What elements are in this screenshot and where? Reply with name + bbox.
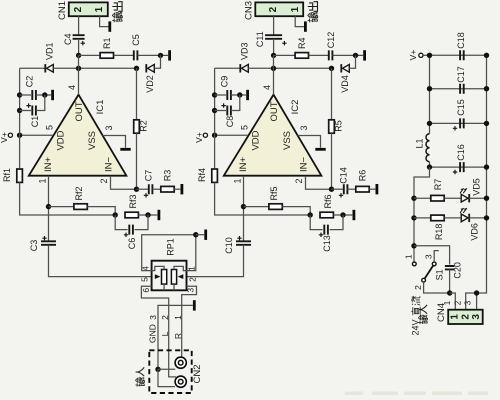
svg-text:R4: R4 bbox=[297, 38, 307, 50]
diode VD4 bbox=[340, 64, 342, 72]
label output (Chinese) bbox=[112, 12, 122, 22]
wire C3 to volume pot wiper left bbox=[49, 245, 152, 277]
svg-text:R5: R5 bbox=[334, 120, 344, 132]
svg-text:IN−: IN− bbox=[299, 157, 310, 173]
wire rail jog down bbox=[414, 167, 430, 264]
junction bbox=[427, 164, 432, 169]
junction bbox=[113, 212, 118, 217]
svg-text:C11: C11 bbox=[255, 31, 265, 47]
wire ground to jack 1 bbox=[158, 368, 175, 370]
resistor Rf4 bbox=[212, 169, 218, 182]
svg-text:C14: C14 bbox=[339, 167, 349, 184]
svg-text:IN−: IN− bbox=[104, 157, 115, 173]
svg-text:R2: R2 bbox=[139, 120, 149, 132]
diode VD3 bbox=[239, 64, 241, 72]
junction bbox=[447, 290, 452, 295]
svg-text:C4: C4 bbox=[63, 33, 73, 45]
svg-text:CN1: CN1 bbox=[57, 1, 68, 20]
svg-text:2: 2 bbox=[413, 285, 423, 290]
wire top to ground bar bbox=[196, 234, 204, 236]
V+ terminal power bbox=[419, 53, 423, 57]
svg-text:Rf4: Rf4 bbox=[197, 168, 207, 182]
svg-text:3: 3 bbox=[424, 254, 434, 259]
wire output to Zobel bbox=[274, 54, 296, 56]
svg-text:R: R bbox=[173, 333, 183, 339]
wire Rf1 to bias rail bbox=[215, 182, 311, 215]
svg-text:1: 1 bbox=[450, 314, 461, 320]
resistor R3 bbox=[152, 188, 161, 190]
svg-text:R6: R6 bbox=[358, 170, 368, 182]
svg-text:C16: C16 bbox=[456, 144, 466, 161]
power rails and rungs bbox=[429, 55, 431, 133]
wire V+ rail corner to VD1 bbox=[215, 67, 241, 69]
ground bar bbox=[51, 90, 54, 100]
capacitor C3 bbox=[41, 241, 56, 245]
LED VD5 bbox=[461, 194, 468, 202]
svg-text:GND: GND bbox=[148, 324, 158, 343]
junction bbox=[76, 66, 81, 71]
wire pin2 IN- bbox=[306, 176, 332, 190]
svg-text:VD6: VD6 bbox=[470, 223, 480, 241]
svg-text:3: 3 bbox=[471, 314, 482, 320]
svg-text:1: 1 bbox=[38, 178, 48, 183]
label input (Chinese) bbox=[135, 377, 144, 386]
capacitor C11 bbox=[265, 35, 282, 39]
filter rung 2 bbox=[430, 88, 487, 90]
svg-text:C3: C3 bbox=[29, 240, 39, 252]
wire L1 to rung 4 bbox=[429, 162, 431, 167]
wire R1 to C5 bbox=[309, 54, 329, 56]
svg-text:C2: C2 bbox=[25, 76, 35, 88]
wire VD6 to right rail bbox=[469, 217, 486, 219]
svg-text:1: 1 bbox=[290, 6, 301, 12]
svg-text:V+: V+ bbox=[0, 132, 9, 143]
filter rung 3 bbox=[430, 122, 487, 124]
junction bbox=[193, 232, 198, 237]
svg-text:3: 3 bbox=[186, 288, 196, 293]
wire VD1 to out node bbox=[248, 67, 331, 69]
svg-text:3: 3 bbox=[464, 300, 473, 305]
wire CN3 pin2 down bbox=[273, 16, 275, 35]
svg-text:VDD: VDD bbox=[56, 130, 67, 150]
junction bbox=[271, 66, 276, 71]
wire VD2 up to ground node bbox=[154, 55, 160, 68]
wire ground to jack 2 bbox=[158, 369, 175, 386]
svg-text:1: 1 bbox=[233, 178, 243, 183]
wire C10 to volume pot wiper right bbox=[187, 245, 244, 277]
ground bar bbox=[363, 50, 366, 60]
svg-text:3: 3 bbox=[104, 125, 114, 130]
svg-text:3: 3 bbox=[299, 125, 309, 130]
wire CN4 pin2 bbox=[466, 293, 477, 310]
V+ rail bbox=[19, 68, 21, 168]
op-amp IC1 bbox=[29, 95, 127, 176]
wire R2 down to IN- node bbox=[136, 133, 138, 189]
svg-text:Rf5: Rf5 bbox=[269, 186, 279, 200]
svg-text:4: 4 bbox=[262, 85, 272, 90]
junction bbox=[212, 108, 217, 113]
resistor Rf1 bbox=[17, 169, 23, 182]
wire VD2 up to ground node bbox=[349, 55, 355, 68]
resistor R18 bbox=[431, 215, 444, 221]
switch S1 terminal 2 bbox=[422, 278, 426, 282]
wire pin5 VDD bbox=[215, 134, 248, 136]
svg-text:VD3: VD3 bbox=[240, 43, 250, 61]
svg-text:5: 5 bbox=[240, 125, 250, 130]
junction bbox=[427, 53, 432, 58]
junction bbox=[411, 196, 416, 201]
svg-text:2: 2 bbox=[294, 178, 304, 183]
wiper arrow right bbox=[178, 274, 184, 279]
junction bbox=[76, 53, 81, 58]
wire CN4 pin3 bbox=[476, 293, 478, 310]
capacitor C8 bbox=[215, 110, 226, 112]
svg-text:OUT: OUT bbox=[74, 101, 85, 121]
svg-text:Rf1: Rf1 bbox=[2, 168, 12, 182]
svg-text:L: L bbox=[160, 331, 170, 336]
svg-text:VD1: VD1 bbox=[45, 43, 55, 61]
capacitor C6 parallel bbox=[115, 215, 127, 230]
wire RP1 pin6 to CN2 L bbox=[141, 286, 176, 377]
capacitor C5 bbox=[134, 50, 138, 60]
svg-text:C1: C1 bbox=[30, 116, 40, 128]
junction bbox=[134, 66, 139, 71]
RCA jack lower bbox=[175, 376, 186, 387]
capacitor C7 bbox=[137, 188, 149, 190]
wire CN1 pin2 down bbox=[78, 16, 80, 35]
svg-text:5: 5 bbox=[45, 125, 55, 130]
wire Rf3 to ground bbox=[333, 214, 352, 216]
junction bbox=[145, 212, 150, 217]
svg-text:4: 4 bbox=[67, 85, 77, 90]
potentiometer RP1 body bbox=[152, 261, 187, 291]
junction bbox=[237, 92, 242, 97]
svg-text:1: 1 bbox=[173, 315, 183, 320]
capacitor C9 bbox=[215, 94, 226, 96]
wire R2 down to IN- node bbox=[331, 133, 333, 189]
svg-text:3: 3 bbox=[148, 315, 158, 320]
svg-text:C18: C18 bbox=[456, 32, 466, 49]
wire V+ to rail bbox=[423, 54, 430, 56]
S1 terminal 3 stub bbox=[434, 251, 439, 262]
ground bar bbox=[108, 21, 111, 31]
svg-text:Rf2: Rf2 bbox=[74, 186, 84, 200]
wire junction to CN4 pin1 bbox=[450, 293, 456, 310]
capacitor C1 bbox=[20, 110, 31, 112]
wire C1 up to C2 node bbox=[36, 95, 45, 111]
wire C5 to ground node bbox=[332, 54, 363, 56]
svg-text:V+: V+ bbox=[408, 50, 418, 61]
svg-text:2: 2 bbox=[453, 300, 462, 305]
pot element left bbox=[162, 270, 167, 285]
wire CN3 pin1 to ground bbox=[295, 16, 304, 26]
ground bar bbox=[375, 184, 378, 194]
junction S1 top bbox=[411, 243, 416, 248]
junction bbox=[17, 133, 22, 138]
ground bar bbox=[157, 210, 160, 220]
resistor Rf6 bbox=[320, 212, 333, 218]
resistor Rf3 bbox=[125, 212, 138, 218]
svg-text:IC2: IC2 bbox=[290, 100, 301, 115]
ground bar bbox=[180, 184, 183, 194]
junction bbox=[484, 196, 489, 201]
svg-text:C8: C8 bbox=[225, 116, 235, 128]
junction bbox=[484, 164, 489, 169]
svg-text:2: 2 bbox=[73, 6, 84, 12]
wire Rf3 to ground bbox=[138, 214, 157, 216]
svg-text:1: 1 bbox=[403, 254, 413, 259]
ground bar bbox=[168, 50, 171, 60]
junction bbox=[329, 187, 334, 192]
V+ terminal bbox=[8, 133, 12, 137]
ground bar bbox=[304, 21, 307, 31]
svg-text:6: 6 bbox=[141, 288, 151, 293]
svg-text:C12: C12 bbox=[326, 32, 336, 49]
wire pin1 IN+ bbox=[243, 176, 245, 242]
LED VD6 bbox=[461, 214, 468, 222]
svg-text:C20: C20 bbox=[452, 262, 462, 279]
junction bbox=[353, 53, 358, 58]
diode VD1 bbox=[44, 64, 46, 72]
svg-text:R1: R1 bbox=[102, 38, 112, 50]
wire R1 to C5 bbox=[114, 54, 134, 56]
op-amp IC2 bbox=[224, 95, 322, 176]
junction bbox=[212, 92, 217, 97]
svg-text:R7: R7 bbox=[433, 179, 443, 191]
connector CN1 bbox=[69, 2, 108, 16]
svg-text:V+: V+ bbox=[194, 132, 204, 143]
junction bbox=[484, 53, 489, 58]
V+ rail bbox=[214, 68, 216, 168]
switch S1 terminal 1 bbox=[412, 262, 416, 266]
svg-text:R3: R3 bbox=[163, 170, 173, 182]
resistor R5 bbox=[331, 68, 333, 120]
wiper arrow left bbox=[155, 274, 161, 279]
resistor Rf5 bbox=[244, 206, 269, 208]
wire RP1 grounded ends loop bbox=[142, 235, 196, 271]
wire S1 to CN4 bbox=[424, 282, 450, 293]
pot element right bbox=[171, 270, 176, 285]
junction bbox=[308, 212, 313, 217]
resistor R4 bbox=[295, 53, 308, 59]
junction bbox=[134, 187, 139, 192]
junction bbox=[340, 212, 345, 217]
svg-text:RP1: RP1 bbox=[166, 238, 176, 256]
svg-text:2: 2 bbox=[188, 277, 198, 282]
wire V+ rail corner to VD1 bbox=[20, 67, 46, 69]
svg-text:VD2: VD2 bbox=[145, 75, 155, 93]
svg-text:VSS: VSS bbox=[87, 131, 98, 150]
wire pin1 IN+ bbox=[48, 176, 50, 242]
filter rung 4 bbox=[430, 166, 487, 168]
diode VD2 bbox=[145, 64, 147, 72]
svg-text:2: 2 bbox=[160, 315, 170, 320]
svg-text:CN3: CN3 bbox=[243, 1, 254, 20]
wire pin2 IN- bbox=[111, 176, 137, 190]
switch S1 lever bbox=[425, 266, 434, 279]
wire pin3 VSS to ground bbox=[103, 136, 126, 148]
svg-text:Rf6: Rf6 bbox=[323, 194, 333, 208]
wire C20 to junction bbox=[449, 269, 451, 293]
wire VD1 to out node bbox=[53, 67, 136, 69]
capacitor C18 bbox=[460, 50, 464, 60]
switch S1 terminal 3 bbox=[432, 262, 436, 266]
svg-text:IN+: IN+ bbox=[238, 157, 249, 173]
junction bbox=[271, 53, 276, 58]
junction bbox=[17, 92, 22, 97]
junction bbox=[427, 121, 432, 126]
junction bbox=[329, 66, 334, 71]
svg-text:C15: C15 bbox=[456, 99, 466, 116]
svg-text:VDD: VDD bbox=[251, 130, 262, 150]
capacitor C15 bbox=[460, 118, 464, 128]
wire Rf1 to bias rail bbox=[20, 182, 116, 215]
wire C5 to ground node bbox=[137, 54, 168, 56]
junction bbox=[46, 204, 51, 209]
svg-text:1: 1 bbox=[94, 6, 105, 12]
junction bbox=[484, 215, 489, 220]
pot element right leads bbox=[174, 266, 187, 270]
CN2 ground wire bbox=[158, 305, 193, 369]
svg-text:Rf3: Rf3 bbox=[128, 194, 138, 208]
wire C4 to output node bbox=[273, 39, 275, 56]
capacitor C13 parallel bbox=[310, 215, 322, 230]
svg-text:C9: C9 bbox=[220, 76, 230, 88]
ground bar bbox=[193, 300, 196, 310]
filter rung 1 bbox=[430, 54, 487, 56]
RCA jack upper bbox=[175, 357, 186, 368]
wire pin4 OUT to rail bbox=[273, 55, 275, 94]
wire C1 up to C2 node bbox=[231, 95, 240, 111]
V+ terminal bbox=[203, 133, 207, 137]
ground bar bbox=[204, 230, 207, 240]
wire CN1 pin1 to ground bbox=[100, 16, 109, 26]
junction bbox=[42, 92, 47, 97]
wire R3 to ground bbox=[369, 188, 375, 190]
svg-text:2: 2 bbox=[460, 314, 471, 320]
junction bbox=[411, 215, 416, 220]
junction bbox=[212, 133, 217, 138]
svg-text:C10: C10 bbox=[224, 237, 234, 254]
resistor R2 bbox=[136, 68, 138, 120]
svg-text:R18: R18 bbox=[434, 224, 444, 241]
connector CN3 bbox=[255, 2, 303, 16]
capacitor C4 bbox=[73, 35, 85, 39]
wire RP1 pin3 to CN2 R bbox=[182, 286, 197, 357]
resistor Rf2 bbox=[49, 206, 74, 208]
svg-text:C17: C17 bbox=[456, 66, 466, 83]
svg-text:CN2: CN2 bbox=[192, 364, 203, 383]
wire Rf2 to bias node bbox=[282, 207, 310, 215]
ground bar bbox=[315, 148, 325, 151]
resistor R6 bbox=[347, 188, 356, 190]
capacitor C16 bbox=[460, 162, 464, 172]
wire Rf2 to bias node bbox=[87, 207, 115, 215]
pot element left leads bbox=[152, 266, 165, 270]
svg-text:IC1: IC1 bbox=[95, 100, 106, 115]
connector CN2 dashed box bbox=[149, 350, 191, 393]
svg-text:C6: C6 bbox=[127, 238, 137, 250]
faint scan artifacts bottom edge bbox=[345, 392, 363, 396]
wire pin4 OUT to rail bbox=[78, 55, 80, 94]
svg-text:2: 2 bbox=[99, 178, 109, 183]
ground bar bbox=[352, 210, 355, 220]
svg-text:24V: 24V bbox=[411, 319, 421, 335]
svg-text:IN+: IN+ bbox=[43, 157, 54, 173]
connector CN4 bbox=[448, 310, 483, 324]
svg-text:C7: C7 bbox=[144, 170, 154, 182]
junction bbox=[474, 290, 479, 295]
wire to C20 bbox=[414, 246, 450, 265]
wire R3 to ground bbox=[174, 188, 180, 190]
junction bbox=[241, 204, 246, 209]
label output (Chinese) bbox=[308, 12, 318, 22]
resistor R7 bbox=[431, 195, 444, 201]
junction bbox=[484, 121, 489, 126]
wire C4 to output node bbox=[78, 39, 80, 56]
svg-text:CN4: CN4 bbox=[436, 303, 447, 322]
wire output to Zobel bbox=[79, 54, 101, 56]
svg-text:OUT: OUT bbox=[269, 101, 280, 121]
capacitor C10 bbox=[236, 241, 251, 245]
ground bar bbox=[120, 148, 130, 151]
resistor R1 bbox=[100, 53, 113, 59]
svg-text:C13: C13 bbox=[322, 235, 332, 252]
wire pin3 VSS to ground bbox=[298, 136, 321, 148]
capacitor C12 bbox=[329, 50, 333, 60]
junction bbox=[158, 53, 163, 58]
junction CN2 ground bbox=[155, 367, 160, 372]
capacitor C2 bbox=[20, 94, 31, 96]
junction bbox=[484, 86, 489, 91]
wire C2 to ground bbox=[36, 94, 51, 96]
inductor L1 bbox=[426, 134, 429, 162]
junction bbox=[17, 108, 22, 113]
svg-text:2: 2 bbox=[268, 6, 279, 12]
wire VD5 to right rail bbox=[469, 197, 486, 199]
wire pin5 VDD bbox=[20, 134, 53, 136]
svg-text:VD4: VD4 bbox=[340, 75, 350, 93]
svg-text:5: 5 bbox=[140, 277, 150, 282]
svg-text:VD5: VD5 bbox=[472, 178, 482, 196]
svg-text:C5: C5 bbox=[131, 34, 141, 46]
capacitor C20 bbox=[445, 266, 455, 269]
svg-text:S1: S1 bbox=[435, 269, 445, 280]
junction bbox=[427, 86, 432, 91]
capacitor C17 bbox=[460, 84, 464, 94]
wire R7 to VD5 bbox=[444, 197, 461, 199]
svg-text:VSS: VSS bbox=[282, 131, 293, 150]
ground bar bbox=[246, 90, 249, 100]
svg-text:L1: L1 bbox=[415, 138, 425, 148]
wire C2 to ground bbox=[231, 94, 246, 96]
wire R18 to VD6 bbox=[444, 217, 461, 219]
capacitor C14 bbox=[332, 188, 344, 190]
